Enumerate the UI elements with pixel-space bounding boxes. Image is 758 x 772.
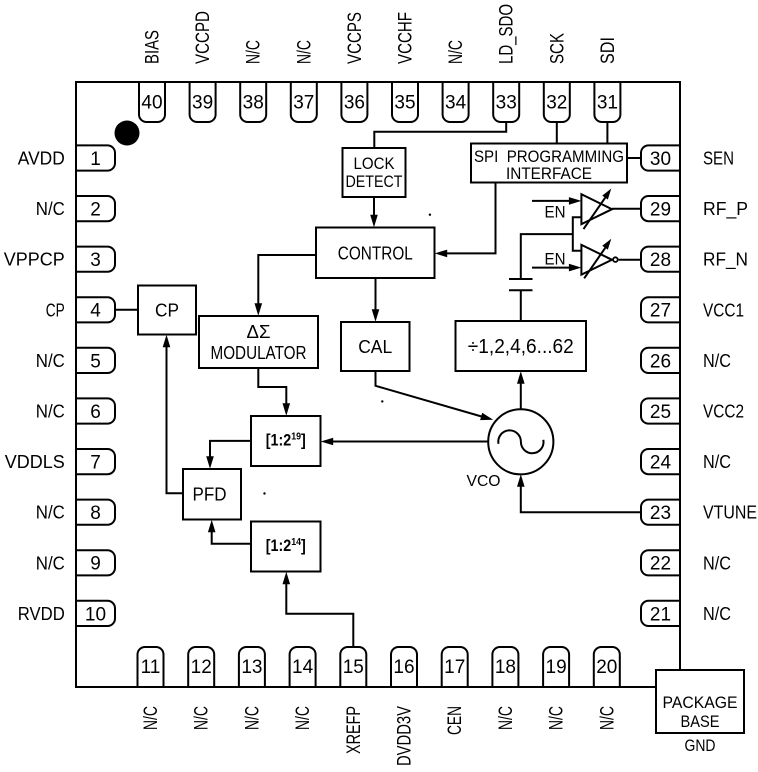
pin label N/C [36,351,65,371]
svg-text:5: 5 [90,351,101,372]
oscillator VCO [488,409,553,474]
svg-text:N/C: N/C [293,706,314,730]
svg-text:BASE: BASE [681,712,720,731]
svg-text:1: 1 [90,149,101,170]
label GND [685,736,716,755]
svg-text:INTERFACE: INTERFACE [506,164,592,183]
svg-text:DVDD3V: DVDD3V [395,706,416,766]
pin label SCK [547,33,568,64]
pin label N/C [294,40,315,64]
pin label VCC1 [703,300,744,320]
capacitor C1 [509,279,533,290]
enable arrow EN1 [532,197,581,205]
pin label N/C [496,706,517,730]
block divider [1:2^19] [251,416,321,466]
pin label N/C [597,706,618,730]
pin label DVDD3V [395,706,416,766]
label EN2 [545,250,566,269]
pin 27 (VCC1) [641,297,680,322]
variable arrow through RF_P buffer [584,187,615,230]
wire RF_P buffer to pin 29 [612,208,641,210]
svg-text:11: 11 [141,657,161,678]
wire MODULATOR to [1:2^19] [258,368,290,416]
svg-text:34: 34 [445,93,467,114]
pin 12 (N/C) [188,647,214,687]
pin label RF_N [703,250,748,271]
pin label VCCPD [193,11,214,64]
pin label VCCPS [345,12,366,64]
svg-text:21: 21 [650,604,671,625]
svg-text:38: 38 [243,93,264,114]
block divider [1:2^14] [251,522,321,572]
wire [1:2^14] to PFD [208,520,251,544]
svg-text:VPPCP: VPPCP [4,250,65,270]
svg-text:15: 15 [343,657,364,678]
svg-text:8: 8 [90,503,101,524]
svg-text:VCO: VCO [467,473,501,490]
pin label VCCHF [396,12,417,64]
svg-text:N/C: N/C [141,706,162,730]
svg-text:XREFP: XREFP [344,706,365,754]
svg-text:EN: EN [545,250,566,269]
pin label N/C [446,40,467,64]
pin 7 (VDDLS) [76,449,115,474]
wire pin 15 XREFP to [1:2^14] [283,572,354,647]
svg-text:N/C: N/C [244,40,265,64]
svg-text:40: 40 [141,93,162,114]
chip package outline [76,82,680,687]
block PFD phase frequency detector [183,469,241,520]
svg-text:37: 37 [293,93,314,114]
wire VCO to divider [517,371,525,409]
enable arrow EN2 [532,264,581,272]
pin 38 (N/C) [240,82,266,122]
pin label XREFP [344,706,365,754]
pin 20 (N/C) [594,647,620,687]
svg-text:3: 3 [90,250,101,271]
pin 1 (AVDD) [76,145,115,170]
pin 2 (N/C) [76,196,115,221]
svg-text:N/C: N/C [36,553,65,573]
svg-text:20: 20 [596,657,617,678]
svg-text:23: 23 [650,503,671,524]
svg-text:N/C: N/C [36,402,65,422]
pin label N/C [293,706,314,730]
svg-text:25: 25 [650,402,671,423]
pin 14 (N/C) [290,647,316,687]
block divider 1,2,4,6...62 [456,321,587,371]
svg-text:CAL: CAL [358,337,392,357]
svg-text:LD_SDO: LD_SDO [497,4,518,64]
svg-text:N/C: N/C [446,40,467,64]
svg-text:26: 26 [650,351,671,372]
speck [263,492,265,494]
pin label SDI [598,37,619,64]
svg-text:24: 24 [650,453,672,474]
svg-text:RF_P: RF_P [703,199,748,220]
svg-text:PFD: PFD [193,485,227,505]
svg-text:VCC2: VCC2 [703,402,744,422]
variable arrow through RF_N buffer [584,237,614,279]
svg-text:27: 27 [650,301,671,322]
pin label N/C [36,199,65,219]
svg-text:GND: GND [685,736,716,755]
svg-text:CEN: CEN [445,706,466,735]
pin label N/C [192,706,213,730]
svg-text:VTUNE: VTUNE [703,503,757,523]
svg-text:30: 30 [650,149,671,170]
svg-text:N/C: N/C [294,40,315,64]
svg-text:VCC1: VCC1 [703,300,744,320]
pin label VTUNE [703,503,757,523]
label EN1 [545,203,566,222]
wire RF_N buffer to pin 28 [619,259,641,261]
speck [429,214,431,216]
pin 3 (VPPCP) [76,247,115,272]
pin label N/C [36,553,65,573]
pin 6 (N/C) [76,398,115,423]
wire [1:2^19] to PFD [206,441,251,469]
svg-text:VCCHF: VCCHF [396,12,417,64]
pin 26 (N/C) [641,348,680,373]
block CP charge pump [138,286,196,335]
svg-text:SCK: SCK [547,33,568,64]
svg-text:9: 9 [90,554,101,575]
pin label N/C [703,604,731,624]
pin 39 (VCCPD) [190,82,216,122]
pin 10 (RVDD) [76,601,115,626]
svg-text:PACKAGE: PACKAGE [663,693,738,712]
pin label CP [46,300,65,320]
pin 33 (LD_SDO) [493,82,519,122]
pin 8 (N/C) [76,500,115,525]
pin label N/C [703,452,731,472]
pin 18 (N/C) [492,647,518,687]
wire pin 32 SCK to SPI box [556,122,558,144]
pin label N/C [141,706,162,730]
svg-text:22: 22 [650,554,671,575]
pin 1 indicator dot [115,121,140,146]
pin 40 (BIAS) [139,82,165,122]
svg-text:N/C: N/C [703,351,731,371]
pin 35 (VCCHF) [392,82,418,122]
svg-text:N/C: N/C [36,199,65,219]
label VCO [467,473,501,490]
wire pin 31 SDI to SPI box [606,122,608,144]
svg-text:N/C: N/C [36,351,65,371]
buffer amplifier RF_P output [581,194,612,224]
pin label N/C [242,706,263,730]
wire buffer input link [573,217,582,251]
svg-text:N/C: N/C [703,553,731,573]
svg-text:CP: CP [155,301,179,321]
svg-text:CONTROL: CONTROL [338,243,413,263]
svg-text:ΔΣ: ΔΣ [247,322,271,342]
block LOCK DETECT U_LD [343,148,406,197]
pin label N/C [244,40,265,64]
svg-text:4: 4 [90,301,101,322]
svg-text:17: 17 [444,657,465,678]
svg-text:AVDD: AVDD [18,149,65,169]
svg-text:SEN: SEN [703,149,734,169]
svg-text:10: 10 [85,604,106,625]
pin 4 (CP) [76,297,115,322]
pin label SEN [703,149,734,169]
pin 32 (SCK) [544,82,570,122]
speck [381,400,383,402]
svg-text:19: 19 [546,657,567,678]
svg-text:VCCPS: VCCPS [345,12,366,64]
pin 24 (N/C) [641,449,680,474]
wire VCO to [1:2^19] [321,438,489,446]
svg-text:29: 29 [650,200,671,221]
wire pin 33 LD_SDO to LOCK DETECT [374,122,506,148]
svg-text:N/C: N/C [192,706,213,730]
svg-text:EN: EN [545,203,566,222]
pin 9 (N/C) [76,550,115,575]
pin label RVDD [18,604,65,624]
svg-text:MODULATOR: MODULATOR [211,343,307,363]
pin 19 (N/C) [543,647,569,687]
svg-text:18: 18 [495,657,516,678]
pin 34 (N/C) [443,82,469,122]
pin label VCC2 [703,402,744,422]
pin 15 (XREFP) [340,647,366,687]
pin label RF_P [703,199,748,220]
pin 16 (DVDD3V) [391,647,417,687]
pin label VDDLS [5,452,65,472]
pin 25 (VCC2) [641,398,680,423]
pin 5 (N/C) [76,348,115,373]
pin label N/C [547,706,568,730]
svg-text:N/C: N/C [242,706,263,730]
svg-text:39: 39 [192,93,213,114]
inversion bubble on RF_N buffer [613,257,618,262]
svg-text:VCCPD: VCCPD [193,11,214,64]
pin 21 (N/C) [641,601,680,626]
pin label N/C [703,553,731,573]
pin 17 (CEN) [442,647,468,687]
svg-text:CP: CP [46,300,65,320]
wire pin 23 VTUNE to VCO [517,474,641,512]
svg-text:VDDLS: VDDLS [5,452,65,472]
pin label CEN [445,706,466,735]
pin 22 (N/C) [641,550,680,575]
svg-text:BIAS: BIAS [143,30,164,64]
svg-text:RF_N: RF_N [703,250,748,271]
wire pin 4 to CP box [115,309,138,311]
wire SPI box to pin 30 SEN [627,157,641,159]
pin label N/C [703,351,731,371]
svg-text:14: 14 [292,657,314,678]
svg-text:N/C: N/C [597,706,618,730]
block CAL [341,322,410,371]
svg-text:32: 32 [546,93,567,114]
svg-text:13: 13 [241,657,262,678]
svg-text:36: 36 [344,93,365,114]
wire CAL to VCO [376,371,495,423]
pin label N/C [36,402,65,422]
wire capacitor to divider [520,290,522,321]
pin 13 (N/C) [239,647,265,687]
svg-text:31: 31 [597,93,618,114]
wire CONTROL to CAL [372,278,380,322]
svg-text:N/C: N/C [703,452,731,472]
svg-text:35: 35 [394,93,415,114]
pin 29 (RF_P) [641,196,680,221]
svg-text:12: 12 [191,657,212,678]
svg-text:2: 2 [90,200,101,221]
pin label LD_SDO [497,4,518,64]
pin 31 (SDI) [594,82,620,122]
svg-text:÷1,2,4,6...62: ÷1,2,4,6...62 [468,336,574,358]
block CONTROL [316,228,435,279]
pin label BIAS [143,30,164,64]
pin label N/C [36,503,65,523]
svg-text:16: 16 [393,657,414,678]
pin 30 (SEN) [641,145,680,170]
wire from capacitor node to buffers [521,234,573,279]
svg-text:7: 7 [90,453,101,474]
svg-text:N/C: N/C [547,706,568,730]
PACKAGE BASE GND box [656,670,744,733]
wire CONTROL to Delta-Sigma MODULATOR [254,255,316,316]
pin 11 (N/C) [138,647,164,687]
block SPI PROGRAMMING INTERFACE [471,144,627,184]
pin 28 (RF_N) [641,247,680,272]
svg-text:28: 28 [650,250,671,271]
svg-text:RVDD: RVDD [18,604,65,624]
pin 37 (N/C) [291,82,317,122]
pin label VPPCP [4,250,65,270]
svg-text:6: 6 [90,402,101,423]
svg-text:N/C: N/C [36,503,65,523]
svg-text:LOCK: LOCK [354,154,396,173]
wire SPI to CONTROL [435,183,496,258]
svg-text:DETECT: DETECT [346,172,403,191]
pin label AVDD [18,149,65,169]
pin 23 (VTUNE) [641,500,680,525]
svg-text:SDI: SDI [598,37,619,64]
pin 36 (VCCPS) [341,82,367,122]
svg-text:33: 33 [496,93,517,114]
wire LOCK DETECT to CONTROL [370,197,378,227]
block Delta-Sigma MODULATOR [199,316,318,368]
svg-text:N/C: N/C [496,706,517,730]
svg-text:N/C: N/C [703,604,731,624]
buffer amplifier RF_N output (inverting) [581,245,612,275]
wire PFD to CP [163,335,183,494]
